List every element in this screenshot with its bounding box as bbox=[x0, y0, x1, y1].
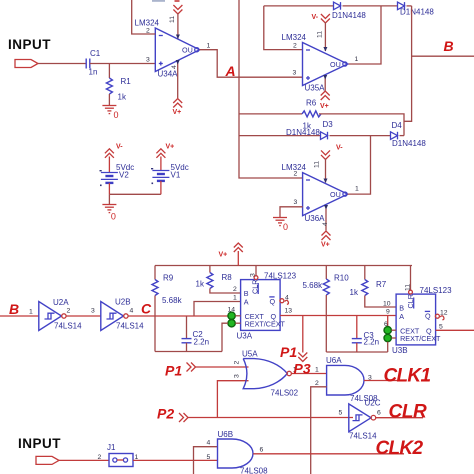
svg-text:2: 2 bbox=[233, 286, 237, 293]
junction dot REXT U3B pin7 bbox=[384, 334, 396, 352]
svg-text:2.2n: 2.2n bbox=[364, 338, 380, 347]
svg-text:D3: D3 bbox=[323, 120, 334, 129]
svg-text:U6B: U6B bbox=[218, 430, 234, 439]
power V+ pin 4 U35A bbox=[320, 75, 330, 110]
and gate U6A 74LS08 bbox=[326, 356, 378, 403]
svg-text:0: 0 bbox=[114, 110, 119, 120]
junction dot CEXT U3A pin14 bbox=[228, 307, 241, 320]
svg-text:A: A bbox=[244, 297, 249, 306]
svg-text:3: 3 bbox=[146, 57, 150, 64]
capacitor C3 2.2n bbox=[352, 331, 379, 352]
wire U36A output up to D3/D4 junction bbox=[348, 136, 371, 195]
wire B to U2A bbox=[0, 315, 39, 317]
svg-text:V2: V2 bbox=[119, 171, 129, 180]
and gate U6B 74LS08 bbox=[218, 430, 269, 474]
svg-text:U3A: U3A bbox=[237, 332, 253, 341]
wire U2C out CLR bbox=[376, 417, 423, 419]
svg-text:4: 4 bbox=[171, 65, 178, 69]
port P1 (right) bbox=[165, 363, 196, 379]
pin 4 qbar bubble U3A with stub bbox=[280, 295, 289, 305]
svg-text:V+: V+ bbox=[166, 144, 175, 151]
svg-text:2.2n: 2.2n bbox=[194, 338, 210, 347]
svg-text:5: 5 bbox=[439, 324, 443, 331]
wire to ground battery bbox=[108, 194, 110, 204]
svg-text:13: 13 bbox=[285, 308, 293, 315]
diode D2 D1N4148 bbox=[398, 2, 435, 16]
svg-text:1k: 1k bbox=[196, 280, 205, 289]
power V+ pin 4 U36A bbox=[321, 205, 331, 249]
wire top diode rail bbox=[264, 5, 412, 7]
svg-text:R9: R9 bbox=[163, 274, 174, 283]
pin 11 clear bubble U3B bbox=[405, 266, 413, 295]
svg-text:11: 11 bbox=[317, 31, 324, 38]
svg-text:Q: Q bbox=[425, 312, 431, 321]
diode D1 D1N4148 bbox=[332, 2, 366, 20]
svg-text:4: 4 bbox=[130, 308, 134, 315]
inverter U2C 74LS14 bbox=[349, 399, 381, 441]
svg-text:A: A bbox=[399, 312, 404, 321]
svg-text:D1N4148: D1N4148 bbox=[400, 8, 434, 17]
node B wire to right edge bbox=[412, 55, 474, 57]
svg-text:R8: R8 bbox=[222, 273, 233, 282]
svg-text:2: 2 bbox=[293, 43, 297, 50]
svg-text:V+: V+ bbox=[320, 103, 329, 110]
chip U3B 74LS123 bbox=[392, 286, 452, 355]
svg-text:6: 6 bbox=[260, 447, 264, 454]
svg-text:74LS14: 74LS14 bbox=[349, 432, 377, 441]
svg-text:V-: V- bbox=[116, 144, 123, 151]
svg-text:LM324: LM324 bbox=[135, 19, 160, 28]
wire P1 drop from Q13 net bbox=[302, 316, 304, 353]
svg-text:B: B bbox=[444, 38, 454, 54]
svg-text:1: 1 bbox=[29, 309, 33, 316]
junction dot CEXT U3B pin6 bbox=[384, 321, 396, 334]
wire feedback vertical to U35A pin2 bbox=[264, 6, 303, 50]
power V+ tap on rail bbox=[219, 243, 243, 266]
wire U3A A-input from node C bbox=[194, 302, 241, 317]
wire U35A output up to diode rail bbox=[348, 6, 381, 64]
wire U6B input4 down bbox=[194, 447, 218, 474]
svg-text:3: 3 bbox=[234, 374, 241, 378]
wire U6A out CLK1 bbox=[364, 380, 406, 382]
svg-text:74LS14: 74LS14 bbox=[54, 322, 82, 331]
wire CEXT drop U3B bbox=[387, 316, 389, 331]
svg-text:1n: 1n bbox=[89, 68, 98, 77]
wire U3B Q5 to right edge bbox=[436, 329, 474, 331]
svg-text:2: 2 bbox=[294, 171, 298, 178]
svg-text:REXT/CEXT: REXT/CEXT bbox=[400, 334, 441, 343]
svg-text:D1N4148: D1N4148 bbox=[392, 139, 426, 148]
svg-text:C: C bbox=[141, 301, 152, 317]
svg-text:5.68k: 5.68k bbox=[303, 281, 324, 290]
svg-text:0: 0 bbox=[111, 212, 116, 222]
svg-text:1k: 1k bbox=[350, 288, 359, 297]
svg-text:P2: P2 bbox=[157, 406, 174, 422]
svg-text:74LS02: 74LS02 bbox=[271, 389, 299, 398]
chip U3A 74LS123 bbox=[237, 272, 297, 341]
junction dot REXT U3A pin15 bbox=[228, 320, 241, 327]
svg-text:6: 6 bbox=[377, 410, 381, 417]
svg-text:2: 2 bbox=[234, 361, 241, 365]
svg-text:A: A bbox=[225, 63, 236, 79]
svg-text:9: 9 bbox=[386, 309, 390, 316]
svg-text:P1: P1 bbox=[165, 363, 182, 379]
power V- pin 11 U34A bbox=[169, 5, 182, 39]
svg-text:1: 1 bbox=[315, 367, 319, 374]
svg-text:R1: R1 bbox=[121, 77, 132, 86]
op-amp U34A (LM324) bbox=[135, 19, 200, 79]
svg-text:4: 4 bbox=[207, 440, 211, 447]
long vertical net to U36A pin2 bbox=[239, 0, 303, 178]
nor gate U5A 74LS02 bbox=[242, 350, 299, 398]
wire U5A out to U6A input1 bbox=[291, 373, 326, 375]
svg-text:U35A: U35A bbox=[305, 84, 326, 93]
svg-text:1: 1 bbox=[207, 43, 211, 50]
port INPUT (top) bbox=[15, 60, 38, 68]
port P2 (right) bbox=[157, 406, 188, 423]
svg-text:3: 3 bbox=[250, 273, 257, 277]
svg-text:1k: 1k bbox=[118, 93, 127, 102]
inverter U2A 74LS14 bbox=[39, 298, 82, 331]
resistor R6 1k bbox=[302, 99, 321, 131]
svg-text:INPUT: INPUT bbox=[8, 37, 51, 52]
svg-text:11: 11 bbox=[169, 16, 176, 23]
svg-text:OU: OU bbox=[182, 46, 193, 55]
svg-text:U2A: U2A bbox=[53, 298, 69, 307]
battery V2 with V- bbox=[100, 144, 135, 195]
ground 0 below R1 bbox=[102, 106, 118, 121]
wire node C to U3A CEXT bbox=[128, 315, 228, 317]
resistor R1 bbox=[106, 64, 131, 106]
svg-text:B: B bbox=[9, 301, 19, 317]
svg-text:U2B: U2B bbox=[115, 298, 131, 307]
svg-text:CLR: CLR bbox=[389, 402, 428, 423]
svg-text:V+: V+ bbox=[321, 242, 330, 249]
diode D3 D1N4148 bbox=[286, 120, 333, 139]
svg-text:INPUT: INPUT bbox=[18, 436, 61, 451]
svg-text:74LS14: 74LS14 bbox=[116, 322, 144, 331]
svg-text:OU: OU bbox=[330, 190, 341, 199]
port P1 (down) bbox=[280, 344, 307, 362]
svg-text:3: 3 bbox=[294, 199, 298, 206]
power V- pin 11 U35A bbox=[312, 14, 330, 52]
svg-text:4: 4 bbox=[322, 222, 329, 226]
resistor R7 1k bbox=[350, 266, 397, 308]
svg-text:2: 2 bbox=[67, 308, 71, 315]
svg-text:J1: J1 bbox=[107, 443, 116, 452]
svg-text:U2C: U2C bbox=[365, 399, 381, 408]
V+ rail over timing chips bbox=[155, 265, 412, 267]
svg-text:V+: V+ bbox=[173, 109, 182, 116]
resistor R8 1k bbox=[196, 266, 241, 294]
cropped text remnants at top edge bbox=[152, 0, 180, 2]
svg-text:1: 1 bbox=[355, 56, 359, 63]
svg-text:CLK2: CLK2 bbox=[376, 438, 424, 459]
wire REXT dot to RC bottom rail bbox=[222, 323, 228, 351]
power V+ pin 4 U34A bbox=[171, 60, 182, 116]
wire port to J1 bbox=[59, 459, 109, 461]
power V- pin 11 U36A bbox=[314, 145, 344, 184]
svg-text:5: 5 bbox=[207, 454, 211, 461]
port INPUT (bottom) bbox=[36, 456, 59, 464]
svg-text:3: 3 bbox=[91, 308, 95, 315]
wire U34A pin2 to top edge bbox=[132, 0, 156, 34]
svg-text:U36A: U36A bbox=[305, 214, 326, 223]
op-amp U36A (LM324) bbox=[282, 163, 348, 223]
wire J1 to U6B input5 bbox=[133, 459, 218, 461]
svg-text:V1: V1 bbox=[171, 171, 181, 180]
capacitor C2 2.2n bbox=[182, 316, 210, 352]
wire R6 row from inv node bbox=[239, 113, 302, 115]
svg-text:REXT/CEXT: REXT/CEXT bbox=[245, 319, 286, 328]
resistor R9 5.68k bbox=[152, 266, 183, 352]
svg-text:U3B: U3B bbox=[392, 346, 408, 355]
wire U6B out CLK2 bbox=[253, 453, 404, 455]
wire R6 to node B vertical bbox=[319, 114, 404, 136]
wire diode rail down to node B bbox=[404, 6, 412, 121]
RC bottom rail U3A bbox=[155, 351, 222, 353]
wire U3A Q13 to U3B A-input bbox=[280, 315, 396, 317]
svg-text:LM324: LM324 bbox=[282, 33, 307, 42]
wire P2 to U2C input bbox=[188, 417, 353, 419]
svg-text:D4: D4 bbox=[392, 121, 403, 130]
svg-text:P1: P1 bbox=[280, 344, 297, 360]
svg-text:R7: R7 bbox=[376, 280, 387, 289]
svg-text:D1N4148: D1N4148 bbox=[286, 128, 320, 137]
svg-text:10: 10 bbox=[383, 301, 391, 308]
svg-text:U6A: U6A bbox=[326, 356, 342, 365]
svg-text:R6: R6 bbox=[306, 99, 317, 108]
svg-text:5: 5 bbox=[339, 410, 343, 417]
svg-text:CLK1: CLK1 bbox=[384, 366, 431, 387]
svg-text:V+: V+ bbox=[219, 252, 228, 259]
svg-text:U34A: U34A bbox=[158, 70, 179, 79]
svg-text:3: 3 bbox=[293, 70, 297, 77]
resistor R10 5.68k bbox=[303, 266, 350, 353]
wire U34A output to node A bbox=[200, 50, 303, 77]
wire battery bottoms joined bbox=[109, 193, 160, 195]
battery V1 with V+ bbox=[151, 144, 189, 195]
svg-text:V-: V- bbox=[312, 14, 319, 21]
svg-text:V-: V- bbox=[336, 145, 343, 152]
wire D3 D4 row bbox=[239, 135, 404, 137]
ground 0 at U36A pin3 bbox=[273, 218, 288, 233]
svg-text:Q: Q bbox=[270, 297, 276, 306]
wire U36A pin3 to ground bbox=[280, 207, 303, 218]
wire P2 up to U5A input3 bbox=[217, 381, 248, 418]
svg-text:C1: C1 bbox=[90, 49, 101, 58]
wire C1 to U34A pin3 bbox=[90, 63, 156, 65]
svg-text:OU: OU bbox=[330, 60, 341, 69]
wire C3 drop from Q13 net bbox=[356, 316, 358, 339]
svg-text:11: 11 bbox=[405, 284, 412, 291]
svg-text:0: 0 bbox=[283, 222, 288, 232]
svg-text:2: 2 bbox=[98, 454, 102, 461]
pin 12 qbar bubble U3B with stub bbox=[435, 310, 447, 320]
diode D4 D1N4148 bbox=[391, 121, 427, 148]
svg-text:P3: P3 bbox=[294, 361, 311, 377]
svg-text:74LS123: 74LS123 bbox=[264, 272, 297, 281]
ground 0 batteries bbox=[102, 205, 116, 222]
svg-text:1: 1 bbox=[233, 295, 237, 302]
wire port to C1 bbox=[38, 63, 86, 65]
wire U6A input2 down bbox=[311, 387, 327, 474]
svg-text:U5A: U5A bbox=[242, 350, 258, 359]
inverter U2B 74LS14 bbox=[101, 298, 144, 331]
jumper J1 bbox=[107, 443, 133, 467]
capacitor C1 bbox=[86, 49, 101, 77]
svg-text:2: 2 bbox=[315, 380, 319, 387]
svg-text:R10: R10 bbox=[334, 274, 349, 283]
svg-text:11: 11 bbox=[314, 161, 321, 168]
RC bottom rail U3B bbox=[326, 351, 387, 353]
wire P1 to U5A input2 bbox=[196, 366, 249, 368]
svg-text:5.68k: 5.68k bbox=[162, 296, 183, 305]
svg-text:1: 1 bbox=[355, 186, 359, 193]
svg-text:D1N4148: D1N4148 bbox=[332, 11, 366, 20]
svg-text:74LS123: 74LS123 bbox=[420, 286, 453, 295]
pin 3 clear bubble U3A bbox=[250, 266, 258, 280]
wire U2A to U2B bbox=[66, 315, 101, 317]
svg-text:74LS08: 74LS08 bbox=[240, 467, 268, 474]
op-amp U35A (LM324) bbox=[282, 33, 348, 93]
